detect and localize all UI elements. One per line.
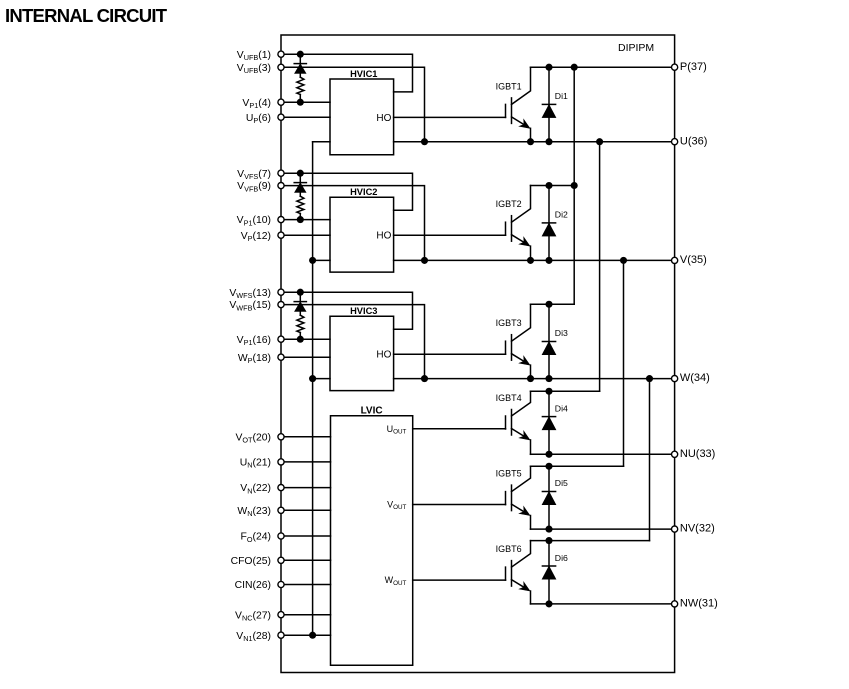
svg-text:HVIC3: HVIC3 (350, 306, 377, 316)
svg-text:Di1: Di1 (555, 91, 568, 101)
svg-text:IGBT6: IGBT6 (496, 544, 522, 554)
svg-text:IGBT4: IGBT4 (496, 393, 522, 403)
svg-text:HVIC1: HVIC1 (350, 69, 377, 79)
svg-text:VN1(28): VN1(28) (236, 631, 271, 643)
svg-text:WN(23): WN(23) (237, 506, 271, 518)
svg-text:Di6: Di6 (555, 553, 568, 563)
svg-text:V(35): V(35) (680, 254, 707, 266)
svg-text:Di5: Di5 (555, 478, 568, 488)
svg-text:HVIC2: HVIC2 (350, 187, 377, 197)
svg-text:VOT(20): VOT(20) (235, 432, 271, 444)
svg-text:W(34): W(34) (680, 372, 710, 384)
svg-text:Di4: Di4 (555, 403, 568, 413)
svg-text:UP(6): UP(6) (246, 113, 271, 125)
svg-text:P(37): P(37) (680, 61, 707, 73)
svg-text:CIN(26): CIN(26) (235, 580, 271, 591)
svg-text:U(36): U(36) (680, 135, 708, 147)
svg-text:Di2: Di2 (555, 210, 568, 220)
svg-text:HO: HO (376, 113, 391, 124)
svg-text:IGBT1: IGBT1 (496, 81, 522, 91)
svg-text:UN(21): UN(21) (240, 458, 271, 470)
svg-text:VP1(16): VP1(16) (237, 335, 271, 347)
svg-text:NW(31): NW(31) (680, 598, 718, 610)
svg-text:IGBT3: IGBT3 (496, 318, 522, 328)
svg-text:NU(33): NU(33) (680, 448, 715, 460)
svg-text:DIPIPM: DIPIPM (618, 42, 654, 54)
svg-text:VP1(10): VP1(10) (237, 215, 271, 227)
svg-text:Di3: Di3 (555, 328, 568, 338)
svg-text:WP(18): WP(18) (238, 353, 271, 365)
svg-text:HO: HO (376, 231, 391, 242)
svg-text:LVIC: LVIC (361, 405, 383, 416)
svg-text:VP(12): VP(12) (241, 231, 271, 243)
svg-text:IGBT5: IGBT5 (496, 469, 522, 479)
svg-text:FO(24): FO(24) (240, 532, 271, 544)
svg-text:VNC(27): VNC(27) (235, 610, 271, 622)
svg-text:VN(22): VN(22) (240, 483, 271, 495)
svg-text:CFO(25): CFO(25) (231, 556, 271, 567)
svg-text:NV(32): NV(32) (680, 523, 715, 535)
svg-text:IGBT2: IGBT2 (496, 199, 522, 209)
svg-text:HO: HO (376, 350, 391, 361)
